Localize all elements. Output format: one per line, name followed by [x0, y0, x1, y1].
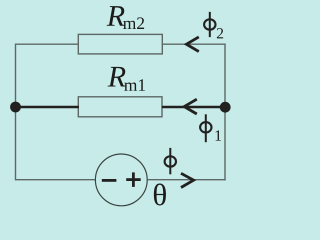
plus sign: [126, 178, 141, 181]
arrowhead phi (right-pointing, bottom branch): [181, 173, 194, 187]
label Rm2: [107, 6, 125, 26]
label phi2: [204, 12, 215, 37]
resistor Rm1 (box): [78, 97, 162, 117]
label phi1: [200, 114, 211, 142]
node: right junction: [220, 102, 231, 113]
wire: middle branch right (thick): [162, 106, 225, 109]
arrowhead phi1 (left-pointing, middle branch): [184, 99, 197, 114]
source circle (mmf source): [95, 154, 147, 206]
label theta: [154, 184, 166, 206]
wire: bottom rail left segment: [16, 179, 97, 181]
wire: middle branch left (thick): [16, 106, 80, 109]
wire: top rail left segment: [16, 43, 80, 45]
resistor Rm2 (box): [78, 34, 162, 54]
node: left junction: [10, 102, 21, 113]
arrowhead phi2 (left-pointing, top branch): [186, 37, 198, 52]
label phi: [165, 148, 176, 174]
minus sign: [102, 179, 117, 182]
label Rm1: [108, 67, 126, 87]
wire: right rail: [224, 44, 226, 181]
wire: left rail: [15, 44, 17, 181]
wire: top rail right segment: [162, 43, 226, 45]
wire: bottom rail right segment: [147, 179, 226, 181]
